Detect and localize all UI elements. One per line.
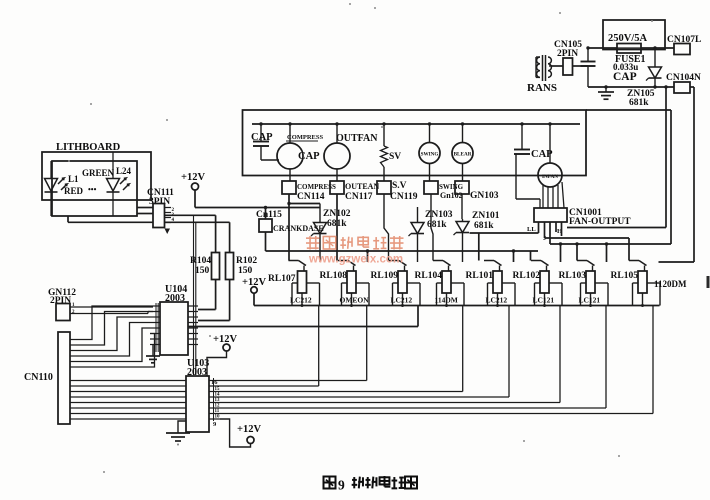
svg-text:150: 150 — [195, 266, 210, 276]
relay RL107 coil — [298, 271, 307, 293]
relay RL104 switch — [433, 261, 451, 272]
svg-text:CN117: CN117 — [345, 192, 373, 202]
GN112 wires — [70, 303, 153, 315]
label +12V relay rail — [242, 277, 266, 288]
label +12V top — [181, 172, 205, 183]
label GREEN — [82, 168, 115, 178]
relay RL109 coil — [398, 271, 407, 293]
label ZN103 681k — [425, 210, 453, 230]
svg-text:2: 2 — [72, 310, 75, 315]
svg-text:RL107: RL107 — [268, 274, 296, 284]
label R104 150 — [190, 256, 211, 276]
wire box top extension — [586, 109, 671, 111]
resistor SV — [381, 124, 388, 181]
wire internal bus — [252, 122, 580, 125]
relay RL107 frame — [292, 283, 320, 306]
svg-text:RL108: RL108 — [320, 271, 348, 281]
label L1 — [68, 174, 79, 184]
svg-text:9: 9 — [338, 478, 345, 493]
svg-text:16: 16 — [211, 379, 218, 386]
wire bus y238 — [545, 238, 630, 261]
svg-text:RL101: RL101 — [466, 271, 494, 281]
label COMPRESS small — [286, 134, 324, 141]
wire mid-right drop A — [567, 87, 666, 228]
relay RL108 frame — [342, 283, 370, 306]
CN110 pins — [70, 340, 76, 420]
connector CN119 — [377, 181, 391, 194]
wire nested bus y386 — [220, 306, 319, 387]
wire Cn115 drop — [265, 232, 267, 251]
wires CN110 to U103 — [76, 381, 186, 420]
U103 right pins — [209, 381, 220, 420]
svg-text:INFAN: INFAN — [542, 174, 558, 180]
connector Cn115 — [259, 219, 272, 232]
motor OUTFAN — [324, 124, 350, 181]
wire mid-right drop B — [670, 110, 672, 244]
U104 left hatch — [156, 303, 158, 352]
svg-text:Gn102: Gn102 — [440, 191, 463, 200]
relay RL103 coil — [586, 271, 595, 293]
label RL103 — [559, 271, 587, 281]
svg-text:GN103: GN103 — [470, 191, 499, 201]
ground U103 — [166, 421, 190, 445]
svg-text:www.gzweix.com: www.gzweix.com — [308, 254, 403, 266]
svg-text:13: 13 — [215, 398, 221, 403]
svg-text:OMEON: OMEON — [340, 296, 370, 305]
label 114DM RL104 — [435, 296, 458, 305]
svg-text:250V/5A: 250V/5A — [608, 33, 648, 44]
relay RL104 coil lead — [445, 293, 448, 307]
zener ZN101 — [454, 219, 470, 235]
relay RL105 switch — [629, 261, 647, 272]
LED L1 — [45, 161, 68, 216]
wire nested bus y408 — [220, 306, 606, 409]
label +12V mid — [213, 334, 237, 345]
svg-text:FAN-OUTPUT: FAN-OUTPUT — [569, 217, 631, 227]
svg-text:R102: R102 — [236, 256, 257, 266]
label 1120DM — [654, 279, 687, 289]
label RL105 — [611, 271, 639, 281]
capacitor CAP right — [514, 124, 540, 199]
wires INFAN to CN1001 — [540, 182, 564, 208]
svg-text:12: 12 — [215, 404, 221, 409]
svg-text:RL109: RL109 — [371, 271, 399, 281]
svg-text:1120DM: 1120DM — [654, 279, 687, 289]
connector GN112 — [56, 304, 70, 321]
fuse FUSE1 — [617, 44, 641, 54]
label ZN102 681k — [323, 209, 351, 229]
watermark url — [308, 254, 403, 266]
wire Gn102 drop — [431, 194, 433, 261]
wire bus R102 y222 — [68, 222, 230, 252]
label FUSE1 — [615, 54, 646, 65]
label RL107 — [268, 274, 296, 284]
label L24 — [116, 166, 132, 176]
zener ZN105 — [646, 48, 662, 87]
svg-text:LC121: LC121 — [533, 296, 555, 305]
svg-text:OUTEAN: OUTEAN — [345, 182, 379, 191]
wire RL101 right contact — [513, 251, 515, 262]
svg-text:LC212: LC212 — [486, 296, 508, 305]
label RL101 — [466, 271, 494, 281]
wire nested bus y391 — [220, 306, 463, 392]
wire +12V to relay rail — [253, 293, 255, 305]
label CN105 2PIN — [554, 40, 582, 59]
wire bus +12V y207 — [195, 206, 320, 209]
wire lith to CN111 p2 — [137, 213, 153, 215]
wire bus LL y233 — [470, 233, 539, 261]
connector CN104N — [674, 82, 690, 93]
svg-text:11: 11 — [215, 409, 220, 414]
svg-text:ZN103: ZN103 — [425, 210, 453, 220]
svg-text:CN119: CN119 — [390, 192, 418, 202]
relay RL103 frame — [581, 283, 609, 306]
relay RL107 coil lead — [301, 293, 304, 307]
svg-text:RED: RED — [64, 186, 84, 196]
capacitor CAP 0.033u — [581, 48, 596, 87]
relay RL102 switch — [531, 261, 549, 272]
watermark text — [306, 236, 404, 250]
scan edge mark — [707, 276, 710, 288]
U103 right hatch — [211, 378, 220, 428]
svg-text:CN110: CN110 — [24, 372, 53, 383]
wire nested bus y380 — [220, 306, 367, 381]
motor SWING — [419, 124, 440, 181]
relay RL105 coil — [638, 271, 647, 293]
connector CN111 — [153, 204, 165, 228]
resistor R102 — [226, 253, 234, 280]
label J — [543, 235, 547, 242]
ground power — [598, 87, 614, 99]
relay RL108 coil — [347, 271, 356, 293]
label LC212 RL109 — [391, 296, 413, 305]
LED L24 — [107, 152, 130, 216]
label LC212 RL101 — [486, 296, 508, 305]
label S.V CN119 — [390, 181, 418, 202]
svg-text:681k: 681k — [474, 221, 494, 231]
label OUTEAN CN117 — [345, 182, 379, 202]
label CAP left — [251, 132, 273, 143]
svg-text:2PIN: 2PIN — [50, 296, 71, 306]
svg-text:RL104: RL104 — [415, 271, 443, 281]
wires CN110 to U104 staircase — [76, 306, 155, 367]
svg-text:CAP: CAP — [298, 151, 320, 162]
terminal +12V mid — [223, 344, 230, 351]
label CN111 3PIN — [147, 188, 174, 207]
label OUTFAN — [336, 133, 378, 144]
connector CN105 — [563, 58, 573, 75]
motor COMPRESS — [277, 124, 303, 181]
svg-text:681k: 681k — [629, 98, 649, 108]
svg-text:COMPRESS: COMPRESS — [287, 134, 324, 141]
wire relay bottom rail — [254, 305, 660, 307]
label OMEON RL108 — [340, 296, 370, 305]
wire U104 pin5 bus — [188, 306, 418, 327]
svg-text:SWING: SWING — [421, 152, 439, 158]
label GN103 — [470, 191, 499, 201]
relay RL102 coil — [540, 271, 549, 293]
relay RL109 coil lead — [401, 293, 404, 307]
svg-text:15: 15 — [215, 387, 221, 392]
relay RL107 switch — [289, 261, 307, 272]
label LC121 RL103 — [579, 296, 601, 305]
svg-text:10: 10 — [215, 415, 221, 420]
svg-text:14: 14 — [215, 393, 221, 398]
U104 left pins — [150, 306, 160, 345]
svg-text:LC121: LC121 — [579, 296, 601, 305]
wire CN104N to right drop — [690, 86, 694, 88]
transformer RANS — [536, 55, 552, 81]
label SWING Gn102 — [439, 183, 464, 200]
wire transformer to CN105 — [551, 65, 563, 67]
label RL108 — [320, 271, 348, 281]
CN111 right pins — [165, 208, 175, 224]
svg-text:ZN101: ZN101 — [472, 211, 500, 221]
label ZN105 681k — [627, 89, 655, 108]
caption figure 9 — [324, 476, 418, 493]
wire RL103 left feed — [576, 244, 578, 261]
svg-text:CAP: CAP — [613, 71, 637, 83]
label RANS — [527, 82, 557, 94]
label ZN101 681k — [472, 211, 500, 231]
U104 right hatch long — [194, 215, 196, 375]
relay RL102 frame — [535, 283, 563, 306]
label 250V/5A — [608, 33, 648, 44]
wire CN1001 pin LL — [538, 222, 540, 233]
wire CN1001 pin mid — [549, 222, 551, 244]
svg-text:CRANKDASE: CRANKDASE — [273, 224, 324, 233]
label RED — [64, 185, 97, 196]
terminal +12V relay rail — [251, 287, 257, 293]
svg-text:S.V: S.V — [392, 181, 407, 191]
label CAP right — [531, 149, 553, 160]
label GN112 2PIN — [48, 288, 76, 306]
svg-text:LC212: LC212 — [391, 296, 413, 305]
svg-text:SV: SV — [389, 152, 401, 162]
relay RL109 switch — [389, 261, 407, 272]
label 0.033u CAP — [613, 62, 638, 83]
svg-text:CN114: CN114 — [297, 192, 325, 202]
relay RL101 coil — [493, 271, 502, 293]
wire RL108 right contact — [367, 251, 369, 262]
label Cn115 — [256, 210, 282, 220]
connector CN117 — [330, 181, 344, 194]
svg-text:BLEAR: BLEAR — [454, 152, 472, 158]
wire R104 bottom — [198, 280, 216, 310]
terminal +12V top — [192, 183, 199, 190]
wire Cn115 feed — [265, 208, 267, 220]
motor BLEAR — [452, 124, 473, 181]
svg-text:114DM: 114DM — [435, 296, 458, 305]
zener ZN103 — [409, 207, 425, 262]
svg-text:L24: L24 — [116, 166, 132, 176]
wire CN114 to ZN102 — [289, 203, 320, 205]
svg-text:9: 9 — [213, 421, 217, 428]
label RL109 — [371, 271, 399, 281]
connector CN107L — [674, 44, 690, 55]
relay RL105 coil lead — [641, 293, 644, 307]
label U104 2003 — [165, 284, 187, 304]
relay RL105 frame — [633, 283, 661, 306]
svg-text:+12V: +12V — [181, 172, 205, 183]
svg-text:681k: 681k — [427, 220, 447, 230]
wire +12V to bus — [194, 190, 196, 208]
svg-text:RANS: RANS — [527, 82, 557, 94]
label LITHBOARD — [56, 142, 121, 153]
ground U104 — [146, 345, 160, 363]
zener ZN102 — [311, 204, 327, 263]
relay RL101 frame — [488, 283, 516, 306]
wire N rail — [588, 85, 674, 88]
wire bus y244 — [550, 242, 671, 245]
svg-text:RL105: RL105 — [611, 271, 639, 281]
svg-text:150: 150 — [238, 266, 253, 276]
connector Gn102 — [424, 181, 438, 194]
svg-text:L1: L1 — [68, 174, 79, 184]
wire U103 pin9 to +12V — [220, 419, 251, 447]
label LL — [527, 226, 536, 233]
label SV — [389, 152, 401, 162]
wire bus y251 — [266, 249, 539, 252]
wire CN114 drop — [287, 194, 290, 261]
label CRANKDASE — [273, 224, 324, 233]
svg-text:LL: LL — [527, 226, 536, 233]
wire L rail — [586, 46, 674, 49]
motor INFAN — [538, 124, 562, 187]
relay RL104 coil — [442, 271, 451, 293]
box LITHBOARD inner — [52, 161, 137, 216]
label RL104 — [415, 271, 443, 281]
wire RL103 right contact — [606, 244, 608, 262]
connector GN103 — [455, 181, 469, 194]
svg-text:+12V: +12V — [237, 424, 261, 435]
label LC212 RL107 — [290, 296, 312, 305]
wire CN117 drop — [336, 194, 338, 261]
U104 right pins — [188, 306, 198, 345]
svg-text:RL102: RL102 — [513, 271, 541, 281]
svg-text:FUSE1: FUSE1 — [615, 54, 646, 65]
ic U104 — [160, 302, 188, 355]
svg-text:OUTFAN: OUTFAN — [336, 133, 378, 144]
dust specks — [68, 3, 653, 473]
wire lith to CN111 p1 — [137, 207, 153, 209]
label COMPRESS CN114 — [297, 183, 336, 202]
connector CN114 — [282, 181, 296, 194]
relay RL102 coil lead — [543, 293, 546, 307]
relay RL108 switch — [338, 261, 356, 272]
svg-text:RL103: RL103 — [559, 271, 587, 281]
connector CN110 — [58, 332, 70, 424]
relay RL101 switch — [484, 261, 502, 272]
ic U103 — [186, 376, 209, 432]
label CN104N — [666, 73, 701, 83]
label U103 2003 — [187, 358, 209, 378]
wire LED return — [67, 216, 69, 222]
wire RL102 left feed — [530, 251, 532, 261]
connector CN1001 — [534, 208, 567, 222]
wire RL102 right contact — [560, 244, 562, 262]
svg-text:LC212: LC212 — [290, 296, 312, 305]
label H — [557, 228, 562, 235]
wire bus R104 y215 — [165, 215, 216, 252]
label CAP mid — [298, 151, 320, 162]
wire CN1001 pin J — [544, 222, 546, 238]
relay RL104 frame — [437, 283, 465, 306]
relay RL103 switch — [577, 261, 595, 272]
relay RL109 frame — [393, 283, 421, 306]
relay RL108 coil lead — [350, 293, 353, 307]
label +12V bottom — [237, 424, 261, 435]
wire ZN101 to RL104 contact — [462, 235, 464, 262]
label LC121 RL102 — [533, 296, 555, 305]
svg-text:•••: ••• — [88, 185, 97, 194]
label R102 150 — [236, 256, 257, 276]
wire GN103 drop — [461, 194, 463, 219]
wire +12V mid to U103 pin16 — [207, 351, 227, 376]
relay RL101 coil lead — [496, 293, 499, 307]
wire CN1001 pin r — [561, 222, 563, 236]
wire nested bus y397 — [220, 306, 509, 398]
box motor compartment — [243, 110, 587, 176]
CN111 pin4 arrow — [165, 229, 171, 235]
label CN107L — [667, 35, 701, 45]
terminal +12V bottom — [247, 437, 254, 444]
svg-text:CAP: CAP — [251, 132, 273, 143]
wire CN1001 pin H — [555, 222, 557, 232]
capacitor CAP left — [253, 124, 279, 160]
wire nested bus y413 — [220, 306, 653, 414]
label CN1001 FAN-OUTPUT — [569, 208, 631, 227]
wire right outer drop — [659, 87, 695, 262]
box 250V/5A — [603, 20, 665, 50]
relay RL103 coil lead — [589, 293, 592, 307]
wire CN119 drop — [384, 194, 389, 261]
wire nested bus y402 — [220, 306, 560, 403]
wire R102 bottom — [198, 280, 230, 321]
svg-text:SWING: SWING — [439, 183, 464, 191]
box LITHBOARD outer — [42, 152, 151, 200]
wire CN105 to node — [573, 65, 589, 67]
label RL102 — [513, 271, 541, 281]
svg-text:Cn115: Cn115 — [256, 210, 282, 220]
label CN110 — [24, 372, 53, 383]
svg-text:GREEN: GREEN — [82, 168, 115, 178]
resistor R104 — [212, 253, 220, 280]
